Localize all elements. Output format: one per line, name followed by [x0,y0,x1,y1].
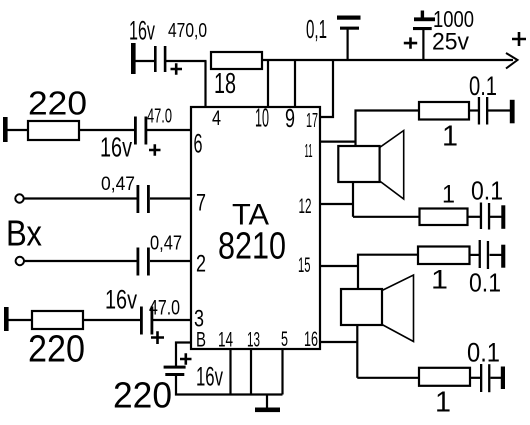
wire [469,109,478,111]
speaker SP1 [338,146,379,182]
wire [153,319,191,321]
plus sign C7 [151,331,164,344]
wire output row3 junction [358,255,418,289]
rail arrowhead [506,53,518,69]
wire [9,319,33,321]
wire [135,60,154,62]
svg-text:470,0: 470,0 [168,20,207,42]
resistor R7 1 [419,368,470,386]
svg-text:9: 9 [285,103,295,133]
plus sign C1 [171,63,183,75]
wire [25,260,137,262]
plus sign rail [149,32,526,365]
svg-text:4: 4 [212,107,221,130]
resistor R4 1 [419,102,469,120]
svg-text:6: 6 [194,129,203,159]
terminal bar row A [3,117,8,142]
wire output row2 [353,216,420,218]
terminal bar row4 [501,367,505,390]
svg-text:16: 16 [304,328,318,351]
resistor R3 220 [32,311,83,329]
node input circle row B [15,194,23,202]
wire pin5 riser [281,349,283,395]
wire pin12 [320,203,353,205]
svg-text:47.0: 47.0 [149,297,180,320]
wire output row1 junction [356,111,420,147]
wire [24,197,137,199]
wire pin15 [320,265,358,267]
svg-text:1: 1 [442,181,455,209]
op-amp U1 TA8210 IC body [191,107,320,349]
wire [490,254,502,256]
svg-text:220: 220 [113,375,172,416]
capacitor C4 47.0 16v plates [134,117,137,145]
svg-text:12: 12 [299,195,312,218]
svg-text:16v: 16v [196,362,223,392]
svg-text:2: 2 [196,251,206,278]
plus sign C3 [404,37,417,48]
svg-text:15: 15 [298,254,311,277]
svg-text:16v: 16v [100,132,132,163]
wire pin11 [320,141,356,143]
plus sign C8 [180,353,192,365]
capacitor C1 470,0 16v input terminal bar [131,43,136,74]
svg-text:0.1: 0.1 [467,338,500,368]
svg-text:25v: 25v [432,29,469,56]
svg-text:0.1: 0.1 [469,268,501,298]
wire [176,376,283,395]
wire pin17 drop [320,60,333,117]
capacitor C9 0.1 plates [478,97,480,125]
wire pin8 [176,343,191,367]
terminal bar row1 [510,100,515,124]
wire [83,319,140,321]
svg-text:17: 17 [306,110,318,132]
wire [470,377,481,379]
wire [470,254,480,256]
svg-text:Вх: Вх [6,213,42,254]
svg-text:0.1: 0.1 [469,71,497,101]
wire pin14 riser [229,349,231,395]
svg-text:220: 220 [28,329,85,371]
svg-text:0,47: 0,47 [101,174,135,195]
terminal bar row D [4,307,9,331]
wire [166,60,207,62]
capacitor C12 0.1 plates [480,364,482,392]
wire [468,216,481,218]
speaker SP2 [341,289,382,325]
wire output row4 [357,377,419,379]
svg-text:B: B [196,329,206,352]
capacitor C1 plates [154,46,157,72]
capacitor C3 1000/25v electrolytic [421,11,424,19]
svg-text:7: 7 [196,190,206,217]
capacitor C6 0,47 plates [137,248,140,276]
capacitor C7 47.0 16v plates [140,307,143,335]
svg-text:8210: 8210 [218,226,286,268]
wire [490,216,502,218]
svg-text:0.1: 0.1 [471,176,503,206]
wire pin4 drop [204,61,206,107]
svg-text:0,47: 0,47 [150,233,182,255]
svg-text:220: 220 [28,85,87,122]
svg-text:14: 14 [218,329,233,352]
terminal bar row2 [501,205,505,229]
wire pin13 riser [250,349,252,395]
plus sign C4 [149,144,161,156]
ground [266,395,268,409]
wire pin9 drop [294,60,296,107]
svg-text:1: 1 [442,121,458,153]
wire pin10 drop [267,60,269,107]
capacitor C10 0.1 plates [480,203,482,230]
wire [79,129,134,131]
capacitor C5 0,47 plates [137,185,140,213]
svg-text:5: 5 [281,328,288,351]
wire [491,377,502,379]
terminal bar row3 [501,245,505,268]
wire speaker2 bottom [356,325,358,378]
wire [147,129,191,131]
svg-text:16v: 16v [105,285,137,315]
wire power rail [262,59,513,61]
resistor R5 1 [420,209,468,226]
wire speaker1 bottom [352,182,354,217]
svg-text:11: 11 [305,141,313,161]
wire pin16 [320,341,357,343]
svg-text:0,1: 0,1 [306,14,327,44]
svg-text:1: 1 [435,387,451,419]
svg-text:13: 13 [247,329,260,352]
svg-text:47.0: 47.0 [147,106,172,128]
capacitor C8 220/16v electrolytic plates [164,366,186,369]
svg-text:10: 10 [255,103,269,133]
wire [488,109,510,111]
capacitor C11 0.1 plates [479,240,481,268]
resistor R1 18 [211,52,262,69]
resistor R2 220 [28,121,79,140]
svg-text:16v: 16v [129,16,155,46]
resistor R6 1 [418,247,470,265]
svg-text:1: 1 [431,265,448,295]
capacitor C2 0,1 [347,29,349,60]
node input circle row C [16,257,24,265]
wire [150,260,191,262]
svg-text:18: 18 [214,68,236,100]
wire [150,197,191,199]
wire [8,129,29,131]
